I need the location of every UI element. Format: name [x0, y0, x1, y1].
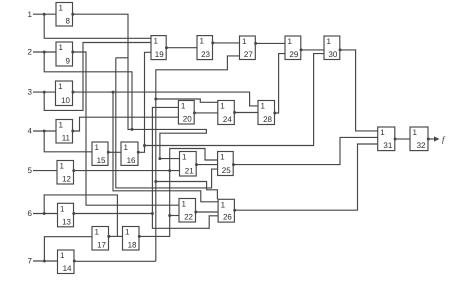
gate 31 (IEC '1' box)	[378, 127, 395, 151]
junction input 2	[43, 51, 46, 54]
svg-text:1: 1	[95, 143, 100, 152]
gate 19 (IEC '1' box)	[151, 36, 166, 60]
svg-text:13: 13	[62, 217, 71, 226]
gate 20 (IEC '1' box)	[178, 101, 194, 125]
gate 14 (IEC '1' box)	[58, 250, 75, 274]
wire gate 26 output to gate 31 input 3	[234, 144, 377, 210]
svg-text:26: 26	[223, 213, 232, 222]
wire gate 13 output junction	[74, 213, 153, 215]
gate 30 (IEC '1' box)	[324, 36, 340, 60]
gate 28 (IEC '1' box)	[258, 101, 275, 125]
wire input 5 to gate 12	[33, 170, 57, 172]
svg-text:18: 18	[128, 241, 137, 250]
output dot gate 13	[72, 212, 75, 215]
svg-text:25: 25	[222, 166, 231, 175]
wire input 7 to gate 14	[33, 260, 58, 262]
wire input 7 branch to gate 17	[44, 237, 92, 261]
svg-text:4: 4	[28, 127, 33, 136]
output dot gate 29	[300, 48, 303, 51]
output dot gate 27	[254, 42, 257, 45]
svg-text:8: 8	[66, 17, 71, 26]
wire not7 up to gate 27 input 2	[156, 56, 240, 261]
junction input 3	[43, 91, 46, 94]
output dot gate 11	[71, 130, 74, 133]
svg-text:31: 31	[383, 141, 392, 150]
wire gate 16 branch to gate 30 input 2	[145, 54, 325, 146]
output dot gate 21	[195, 163, 198, 166]
output dot gate 20	[193, 111, 196, 114]
wire input 6 branch	[44, 195, 117, 237]
svg-text:28: 28	[263, 115, 272, 124]
junction input 6	[43, 212, 46, 215]
svg-text:1: 1	[261, 102, 266, 111]
wire vertical branch to gate 25 input 3	[116, 58, 218, 188]
wire gate 23 output to gate 27 input 1	[213, 42, 240, 44]
svg-text:29: 29	[289, 50, 298, 59]
wire input 1 to gate 8	[33, 13, 56, 15]
output dot gate 26	[233, 209, 236, 212]
svg-text:21: 21	[185, 167, 194, 176]
svg-text:1: 1	[95, 228, 100, 237]
wire gate 32 output to f	[428, 138, 438, 140]
output dot gate 10	[72, 91, 75, 94]
wire gate 16 output to gate 19 input 3	[138, 52, 151, 152]
svg-text:1: 1	[60, 251, 65, 260]
junction not7 line 2	[154, 180, 157, 183]
svg-text:1: 1	[58, 82, 63, 91]
output dot gate 28	[273, 112, 276, 115]
svg-text:1: 1	[60, 162, 65, 171]
svg-text:1: 1	[125, 228, 130, 237]
wire input 6 to gate 13	[33, 213, 58, 215]
svg-text:1: 1	[220, 153, 225, 162]
gate 12 (IEC '1' box)	[57, 161, 74, 185]
output dot gate 17	[107, 235, 110, 238]
svg-text:30: 30	[328, 50, 337, 59]
wire not6 down to gate 26 input 3	[152, 214, 218, 229]
wire gate 11 output to gate 20 input 2	[73, 117, 179, 131]
svg-text:1: 1	[242, 37, 247, 46]
gate 22 (IEC '1' box)	[179, 199, 196, 223]
gate 25 (IEC '1' box)	[218, 152, 234, 176]
wire gate 10 branch to gate 26	[113, 92, 218, 202]
output dot gate 18	[138, 235, 141, 238]
wire input 4 branch to gate 15	[44, 131, 92, 152]
svg-text:1: 1	[220, 102, 225, 111]
junction not3 line	[112, 91, 115, 94]
svg-text:12: 12	[62, 175, 71, 184]
svg-text:15: 15	[97, 156, 106, 165]
junction out16 line	[143, 144, 146, 147]
gate 27 (IEC '1' box)	[240, 36, 256, 60]
svg-text:1: 1	[413, 128, 418, 137]
gate 18 (IEC '1' box)	[123, 227, 140, 251]
output dot gate 22	[194, 211, 197, 214]
svg-text:1: 1	[154, 37, 159, 46]
wire gate 8 output to gate 21 input 1	[73, 14, 207, 158]
output dot gate 15	[107, 151, 110, 154]
junction gate22 in2	[168, 214, 171, 217]
svg-text:1: 1	[182, 200, 187, 209]
wire gate 12 output to gate 21 input 2	[74, 170, 180, 172]
wire input 2 to gate 9	[33, 51, 56, 53]
wire not7 branch to gate 24 input 1	[156, 99, 218, 102]
svg-text:1: 1	[182, 153, 187, 162]
junction jog line	[131, 128, 134, 131]
svg-text:1: 1	[124, 143, 129, 152]
wire gate 25 output to gate 31 input 2	[233, 137, 378, 164]
junction gate21 in1	[158, 157, 161, 160]
wire gate 10 output to gate 28 input 1	[73, 92, 259, 106]
gate 29 (IEC '1' box)	[285, 36, 301, 60]
wire gate 18 branch to gate 22 input 2	[170, 215, 179, 217]
svg-text:20: 20	[183, 115, 192, 124]
svg-text:14: 14	[63, 264, 72, 273]
wire not6 up to gate 20 input 1	[152, 107, 178, 213]
gate 13 (IEC '1' box)	[58, 203, 74, 227]
svg-text:16: 16	[127, 156, 136, 165]
wire not7 branch to gate 26 input 1	[156, 182, 218, 200]
junction input 1	[43, 13, 46, 16]
svg-text:1: 1	[200, 37, 205, 46]
svg-text:24: 24	[223, 115, 232, 124]
gate 11 (IEC '1' box)	[56, 120, 73, 144]
svg-text:27: 27	[244, 50, 253, 59]
wire gate 28 output to gate 29 input 2	[275, 54, 286, 113]
wire gate 19 output to gate 23	[166, 47, 197, 49]
output dot gate 16	[137, 151, 140, 154]
svg-text:17: 17	[97, 241, 106, 250]
gate 23 (IEC '1' box)	[197, 36, 213, 60]
output dot gate 8	[71, 13, 74, 16]
output dot gate 25	[232, 163, 235, 166]
gate 17 (IEC '1' box)	[92, 227, 109, 251]
wire input 1 branch to gate 19 input 1	[44, 14, 151, 38]
output dot gate 12	[72, 169, 75, 172]
wire gate 31 output to gate 32	[395, 138, 410, 140]
wire gate 18 output to gate 25 path	[139, 149, 218, 237]
wire input 4 to gate 11	[33, 130, 56, 132]
gate 9 (IEC '1' box)	[56, 42, 73, 66]
gate 26 (IEC '1' box)	[218, 199, 234, 222]
wire input 2 branch	[44, 52, 132, 129]
svg-text:1: 1	[59, 4, 64, 13]
output dot gate 14	[73, 260, 76, 263]
junction input 7	[43, 260, 46, 263]
svg-text:11: 11	[62, 134, 71, 143]
wire gate 20 output to gate 24 input 2	[194, 112, 218, 114]
wire gate 21 output to gate 25 input 2	[196, 164, 217, 166]
gate 16 (IEC '1' box)	[121, 142, 138, 165]
junction out12 line	[168, 169, 171, 172]
output dot gate 19	[165, 46, 168, 49]
svg-text:1: 1	[28, 10, 33, 19]
output arrow	[434, 136, 440, 141]
wire gate 30 output to gate 31 input 1	[340, 50, 378, 131]
junction input 4	[43, 130, 46, 133]
svg-text:1: 1	[327, 37, 332, 46]
wire gate 29 output to gate 30 input 1	[301, 49, 324, 51]
wire gate 17 output to gate 18	[109, 235, 123, 237]
junction not6 line	[151, 212, 154, 215]
svg-text:5: 5	[28, 166, 33, 175]
gate 15 (IEC '1' box)	[92, 142, 108, 165]
svg-text:1: 1	[380, 128, 385, 137]
gate 32 (IEC '1' box)	[410, 127, 428, 151]
gate 21 (IEC '1' box)	[180, 152, 197, 177]
svg-text:1: 1	[288, 37, 293, 46]
svg-text:3: 3	[28, 88, 33, 97]
output dot gate 30	[339, 48, 342, 51]
wire gate 24 output to gate 28 input 2	[234, 112, 258, 114]
junction not7 line	[154, 98, 157, 101]
output dot gate 32	[427, 138, 430, 141]
svg-text:1: 1	[59, 43, 64, 52]
wire gate 15 output to gate 16	[108, 151, 121, 153]
gate 8 (IEC '1' box)	[56, 3, 73, 27]
gate 24 (IEC '1' box)	[218, 101, 235, 125]
wire gate 14 output	[74, 260, 156, 262]
wire gate 22 output to gate 26 input 2	[196, 211, 219, 213]
gate 10 (IEC '1' box)	[56, 81, 73, 106]
wire jog near gate 8 path	[116, 57, 128, 59]
svg-text:1: 1	[181, 102, 186, 111]
svg-text:32: 32	[417, 141, 426, 150]
svg-text:1: 1	[59, 121, 64, 130]
svg-text:19: 19	[155, 50, 164, 59]
output dot gate 31	[394, 138, 397, 141]
output dot gate 23	[211, 41, 214, 44]
wire gate 9 output to gate 22 input 1	[73, 52, 180, 205]
svg-text:9: 9	[66, 57, 71, 66]
svg-text:23: 23	[201, 50, 210, 59]
svg-text:7: 7	[28, 257, 33, 266]
svg-text:2: 2	[28, 48, 33, 57]
svg-text:10: 10	[61, 96, 70, 105]
wire input 3 branch to gate 19 input 2	[44, 43, 151, 111]
svg-text:1: 1	[221, 200, 226, 209]
svg-text:1: 1	[60, 204, 65, 213]
wire gate 27 output to gate 29 input 1	[255, 42, 285, 44]
output dot gate 24	[233, 111, 236, 114]
output dot gate 9	[71, 51, 74, 54]
wire input 3 to gate 10	[33, 91, 56, 93]
svg-text:6: 6	[28, 209, 33, 218]
svg-text:22: 22	[184, 213, 193, 222]
